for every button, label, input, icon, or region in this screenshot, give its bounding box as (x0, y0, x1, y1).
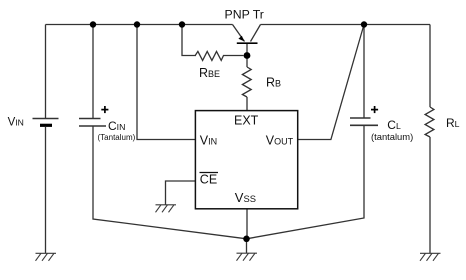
svg-text:(Tantalum): (Tantalum) (98, 133, 136, 142)
svg-text:(tantalum): (tantalum) (371, 131, 413, 142)
svg-text:RB: RB (266, 75, 281, 89)
svg-text:CIN: CIN (108, 119, 125, 133)
svg-text:VIN: VIN (200, 134, 217, 148)
svg-text:CE: CE (200, 173, 217, 187)
svg-text:RL: RL (446, 116, 460, 130)
svg-text:PNP Tr: PNP Tr (225, 8, 264, 22)
svg-text:EXT: EXT (234, 114, 259, 128)
svg-text:VOUT: VOUT (266, 134, 294, 148)
svg-text:RBE: RBE (199, 66, 220, 80)
svg-text:VSS: VSS (235, 190, 256, 205)
svg-text:VIN: VIN (8, 116, 24, 128)
